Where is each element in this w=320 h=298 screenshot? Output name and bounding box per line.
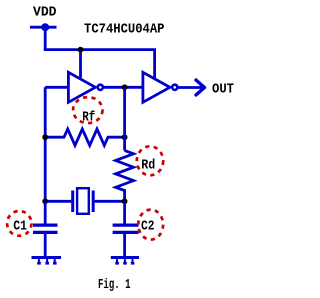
svg-text:Rd: Rd [141,158,155,174]
svg-text:OUT: OUT [212,82,234,97]
ground below C2 [111,258,139,265]
annotation circle around Rd [137,146,163,175]
svg-text:C1: C1 [13,220,27,235]
annotation circle around C2 [138,210,163,240]
wire U1 output to U2 input [103,86,142,89]
junction Rf left [42,134,48,140]
resistor Rf (feedback) [45,129,124,145]
svg-text:Fig. 1: Fig. 1 [98,277,131,293]
capacitor C1 [33,201,58,256]
resistor Rd (damping) [116,151,134,202]
wire power stub to U1 [79,50,82,78]
annotation circle around Rf [73,97,102,123]
crystal X1 [73,188,94,214]
svg-text:TC74HCU04AP: TC74HCU04AP [84,22,165,37]
svg-text:VDD: VDD [33,5,57,20]
junction Rf right [122,134,128,140]
wire VDD drop [44,27,47,49]
VDD terminal symbol [30,25,57,30]
junction crystal left node [42,198,48,204]
wire crystal node [45,200,71,203]
junction U1 output node [122,84,128,90]
OUT arrow head [196,80,204,95]
wire U2 output [178,86,202,89]
inverter U1 [68,72,103,102]
capacitor C2 [113,201,139,256]
wire top VDD rail [45,48,154,78]
wire right rail (output node down to Rd) [123,87,126,150]
wire left rail (input node) [44,87,47,201]
junction on VDD rail [78,47,84,53]
wire U1 input [45,86,68,89]
junction crystal right node [122,198,128,204]
ground below C1 [32,258,62,265]
inverter U2 [143,72,178,102]
svg-text:C2: C2 [141,220,155,235]
annotation circle around C1 [7,211,31,236]
